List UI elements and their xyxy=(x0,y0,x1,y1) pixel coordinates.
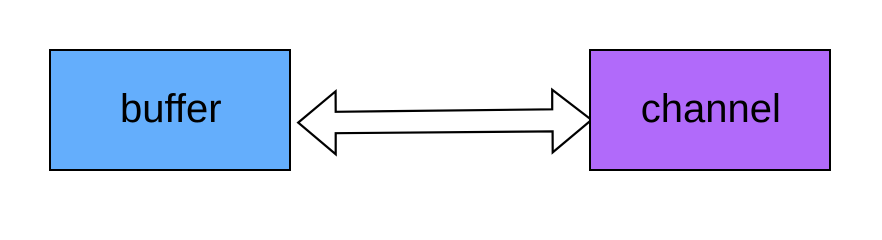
node buffer xyxy=(49,49,291,171)
node channel xyxy=(589,49,831,171)
